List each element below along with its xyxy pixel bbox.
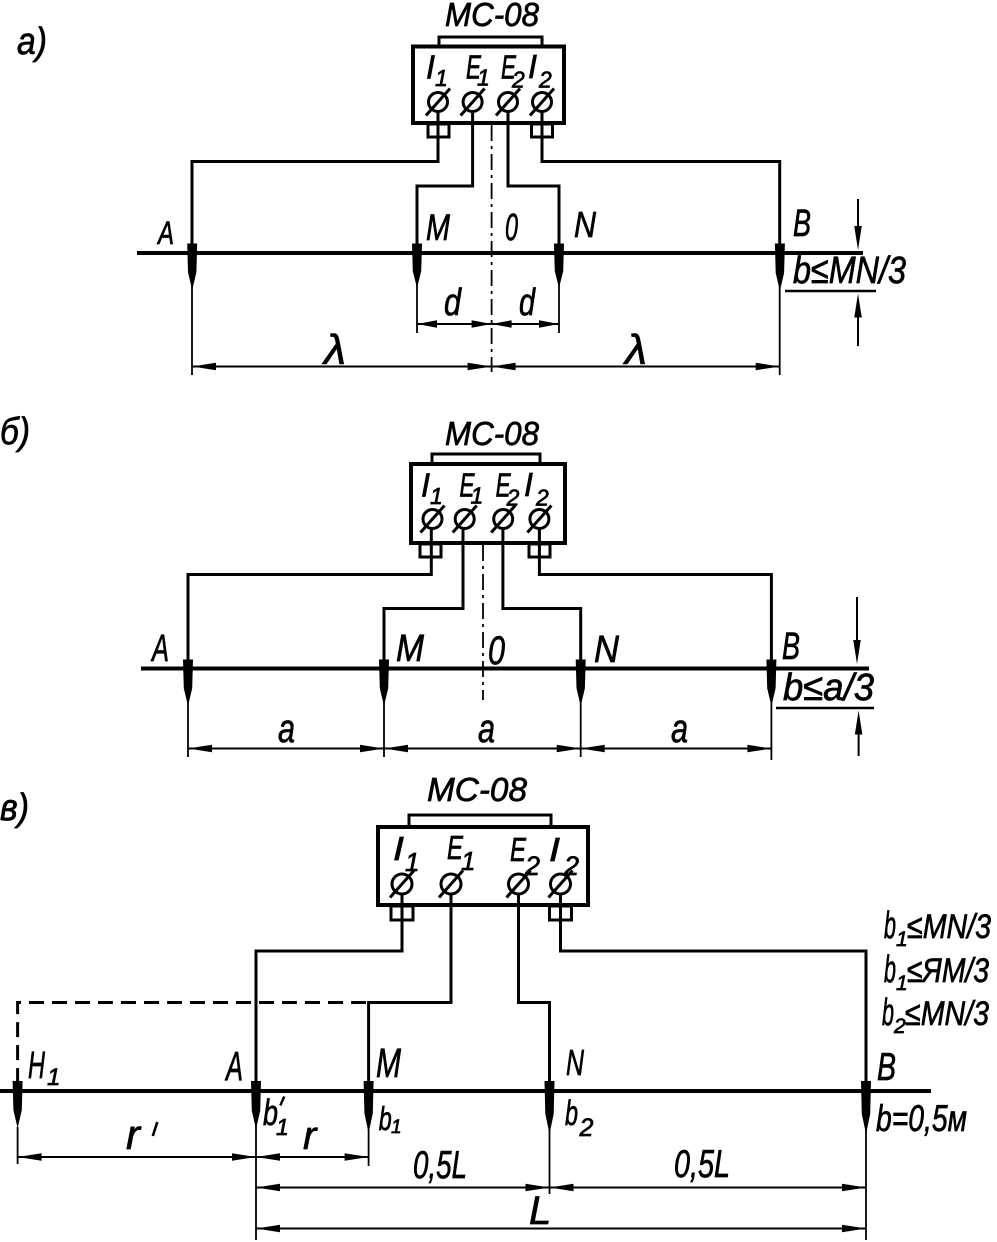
dimension lambda right (a)	[492, 366, 780, 368]
svg-text:A: A	[157, 215, 174, 251]
depth arrow down at B (b)	[856, 597, 858, 640]
svg-text:a): a)	[17, 21, 47, 63]
svg-text:b: b	[884, 949, 896, 991]
instrument body (b)	[411, 464, 565, 543]
svg-text:r: r	[126, 1111, 142, 1158]
wire I1 to electrode A (b)	[188, 528, 431, 662]
dashed wire to H1 (v)	[18, 1003, 366, 1083]
terminal circle E1 (b)	[455, 510, 474, 529]
foot under I2 (b)	[529, 544, 550, 557]
svg-text:b: b	[379, 1100, 392, 1137]
svg-text:N: N	[566, 1042, 585, 1083]
terminal circle E2 (b)	[494, 510, 513, 529]
terminal circle I1 (v)	[392, 874, 412, 894]
terminal circle E2 (v)	[509, 874, 529, 894]
dimension a2 (b)	[384, 748, 581, 750]
svg-text:≤MN/3: ≤MN/3	[905, 995, 989, 1033]
electrode B (a)	[775, 244, 785, 292]
terminal circle E1 (v)	[441, 874, 461, 894]
svg-text:b: b	[565, 1094, 578, 1133]
extension line B (b)	[770, 668, 772, 760]
dimension d left (a)	[417, 323, 492, 325]
svg-text:1: 1	[430, 483, 443, 509]
svg-text:b≤MN/3: b≤MN/3	[793, 250, 906, 292]
svg-text:λ: λ	[322, 326, 346, 373]
center line O (a)	[491, 125, 493, 372]
electrode N (a)	[554, 244, 564, 289]
svg-text:M: M	[426, 207, 450, 248]
svg-text:λ: λ	[623, 326, 647, 373]
svg-text:I: I	[524, 466, 533, 503]
extension line M (a)	[416, 252, 418, 333]
depth arrow up at B (a)	[857, 316, 859, 346]
svg-text:b: b	[882, 992, 894, 1034]
extension line N (v)	[549, 1089, 551, 1194]
electrode M (v)	[364, 1081, 374, 1133]
svg-text:0: 0	[488, 629, 505, 673]
depth arrow up at B (b)	[858, 733, 860, 756]
svg-text:A: A	[151, 628, 169, 670]
svg-text:b=0,5м: b=0,5м	[876, 1098, 967, 1139]
depth underline (b)	[776, 707, 874, 710]
svg-text:2: 2	[538, 67, 552, 93]
svg-text:I: I	[421, 467, 430, 504]
svg-text:H: H	[28, 1045, 45, 1087]
svg-text:a: a	[478, 707, 495, 751]
dimension 0,5L right (v)	[550, 1187, 867, 1189]
wire I2 to electrode B (b)	[539, 528, 771, 662]
extension line M (v)	[368, 1089, 370, 1166]
wire E1 to electrode M (v)	[369, 894, 451, 1084]
dimension L (v)	[256, 1228, 866, 1230]
foot under I2 (a)	[532, 124, 553, 137]
dimension 0,5L left (v)	[256, 1187, 550, 1189]
electrode B (v)	[861, 1081, 871, 1134]
wire E2 to electrode N (b)	[503, 528, 581, 662]
svg-text:I: I	[549, 831, 560, 868]
electrode N (v)	[545, 1081, 555, 1134]
wire I2 to electrode B (v)	[561, 894, 867, 1084]
svg-text:2: 2	[579, 1114, 594, 1142]
extension line N (a)	[558, 252, 560, 333]
svg-text:≤ЯМ/3: ≤ЯМ/3	[907, 952, 989, 990]
dimension lambda left (a)	[192, 366, 492, 368]
svg-text:2: 2	[535, 485, 549, 511]
svg-text:r: r	[303, 1114, 318, 1158]
electrode H1 (v)	[13, 1081, 23, 1128]
svg-text:b≤a/3: b≤a/3	[783, 667, 874, 709]
foot under I1 (v)	[391, 906, 413, 920]
terminal circle I2 (b)	[530, 510, 549, 529]
svg-text:L: L	[529, 1189, 551, 1233]
svg-text:I: I	[528, 48, 537, 85]
extension line A (v)	[255, 1089, 257, 1240]
ground surface line (a)	[137, 251, 863, 255]
foot under I2 (v)	[550, 906, 572, 920]
svg-text:M: M	[376, 1040, 402, 1086]
dimension rprime (v)	[18, 1156, 256, 1158]
svg-text:0: 0	[505, 207, 518, 249]
svg-text:МС-08: МС-08	[445, 415, 540, 452]
svg-text:1: 1	[47, 1064, 60, 1091]
svg-text:N: N	[594, 629, 619, 671]
svg-text:1: 1	[435, 65, 448, 91]
svg-text:1: 1	[391, 1117, 402, 1138]
terminal circle E2 (a)	[499, 93, 518, 112]
electrode N (b)	[576, 660, 586, 707]
svg-text:0,5L: 0,5L	[413, 1144, 467, 1187]
wire E1 to electrode M (a)	[417, 111, 473, 248]
terminal circle I1 (a)	[429, 93, 448, 112]
svg-text:b: b	[884, 905, 896, 947]
svg-text:d: d	[519, 282, 536, 324]
svg-text:I: I	[393, 830, 404, 867]
foot under I1 (a)	[428, 124, 449, 137]
svg-text:I: I	[426, 49, 435, 86]
terminal circle I2 (a)	[533, 93, 552, 112]
svg-text:МС-08: МС-08	[445, 0, 540, 33]
electrode M (a)	[412, 244, 422, 289]
svg-text:A: A	[224, 1043, 243, 1089]
extension line M (b)	[383, 668, 385, 757]
svg-text:B: B	[793, 203, 811, 245]
dimension a3 (b)	[581, 748, 772, 750]
electrode A (a)	[187, 244, 197, 291]
svg-text:N: N	[574, 204, 597, 245]
svg-text:б): б)	[0, 411, 30, 453]
ground surface line (v)	[0, 1089, 931, 1093]
svg-text:a: a	[671, 707, 688, 751]
wire I1 to electrode A (a)	[192, 111, 438, 248]
extension line H1 (v)	[17, 1127, 19, 1164]
dimension d right (a)	[492, 323, 559, 325]
dimension r (v)	[256, 1156, 369, 1158]
svg-text:0,5L: 0,5L	[674, 1143, 730, 1186]
extension line N (b)	[580, 668, 582, 757]
terminal circle E1 (a)	[463, 93, 482, 112]
instrument body (a)	[413, 47, 564, 124]
svg-text:1: 1	[276, 1114, 289, 1140]
extension line B (v)	[865, 1089, 867, 1240]
center line O (b)	[482, 545, 484, 700]
electrode B (b)	[766, 660, 776, 707]
svg-text:МС-08: МС-08	[427, 771, 528, 808]
svg-text:B: B	[877, 1046, 896, 1089]
wire E2 to electrode N (v)	[519, 894, 550, 1084]
svg-text:M: M	[396, 628, 424, 670]
svg-text:a: a	[278, 707, 295, 751]
instrument body (v)	[378, 827, 588, 905]
extension line B (a)	[779, 252, 781, 375]
svg-text:d: d	[444, 282, 462, 324]
terminal circle I1 (b)	[423, 510, 442, 529]
wire E2 to electrode N (a)	[508, 111, 559, 248]
foot under I1 (b)	[420, 544, 441, 557]
wire I2 to electrode B (a)	[542, 111, 780, 248]
electrode A (b)	[183, 660, 193, 707]
extension line A (a)	[191, 252, 193, 375]
svg-text:1: 1	[471, 483, 484, 509]
electrode M (b)	[379, 660, 389, 707]
ground surface line (b)	[141, 667, 869, 671]
svg-text:≤MN/3: ≤MN/3	[907, 908, 991, 946]
depth underline (a)	[785, 290, 876, 293]
svg-text:B: B	[782, 626, 800, 668]
instrument lid (a)	[439, 37, 542, 47]
electrode A (v)	[251, 1081, 261, 1129]
depth arrow down at B (a)	[857, 199, 859, 228]
wire I1 to electrode A (v)	[256, 894, 402, 1084]
extension line A (b)	[187, 668, 189, 757]
svg-text:1: 1	[477, 65, 490, 91]
instrument lid (b)	[432, 454, 540, 464]
svg-text:в): в)	[0, 787, 29, 829]
wire E1 to electrode M (b)	[384, 528, 463, 662]
svg-text:1: 1	[896, 928, 908, 951]
dimension a1 (b)	[188, 748, 384, 750]
terminal circle I2 (v)	[551, 874, 571, 894]
svg-text:1: 1	[896, 972, 908, 995]
instrument lid (v)	[409, 815, 551, 827]
